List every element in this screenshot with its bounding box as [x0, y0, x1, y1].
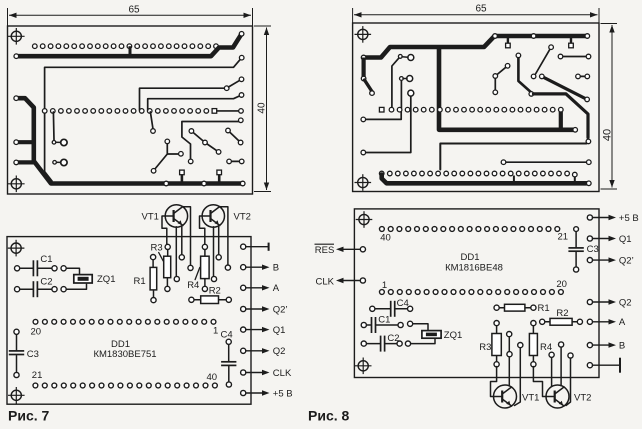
- thin diagonal trace C board 2: [536, 45, 554, 74]
- capacitor C4 board 4: [370, 298, 413, 317]
- capacitor C1 board 3: [15, 254, 58, 276]
- resistor R4 board 4: [529, 321, 552, 367]
- svg-text:C2: C2: [40, 276, 52, 287]
- pad row middle board 1: [42, 109, 243, 114]
- thin trace H board 1: [189, 129, 221, 155]
- trace pair E board 2: [558, 54, 591, 59]
- mounting hole top-left board 4: [356, 211, 373, 228]
- resistor R4 board 3: [187, 244, 209, 291]
- thin trace G board 1: [182, 118, 243, 164]
- svg-text:+5 В: +5 В: [273, 388, 293, 399]
- capacitor C4 board 3: [221, 329, 237, 387]
- pad row upper DD1 board 3: [33, 319, 216, 324]
- svg-text:КМ1816ВЕ48: КМ1816ВЕ48: [445, 262, 503, 273]
- PCB board 1 outline (65x40): [8, 26, 253, 194]
- svg-text:R2: R2: [556, 308, 568, 319]
- svg-text:40: 40: [602, 129, 614, 141]
- svg-text:Q2’: Q2’: [619, 255, 634, 266]
- wire VT2 lead2 board 4: [549, 352, 554, 386]
- mounting hole top-left board 1: [8, 28, 25, 45]
- svg-text:Q2: Q2: [273, 346, 286, 357]
- output pin Q1 board 3: [241, 325, 286, 336]
- svg-text:40: 40: [380, 232, 391, 243]
- thin trace D board 1: [140, 77, 244, 110]
- svg-text:20: 20: [31, 326, 42, 337]
- thin trace K board 1: [227, 159, 244, 164]
- svg-text:Q2’: Q2’: [273, 304, 288, 315]
- thick diagonal trace lower board 2: [516, 53, 588, 137]
- transistor VT2 board 4: [546, 385, 591, 408]
- svg-text:C2: C2: [387, 333, 399, 344]
- svg-text:Q1: Q1: [273, 325, 286, 336]
- output pin Q2’ board 4: [587, 255, 633, 266]
- wire VT1 base to R3: [162, 216, 167, 245]
- IC DD1 label board 3: [93, 339, 156, 360]
- svg-text:R1: R1: [538, 303, 550, 314]
- svg-text:B: B: [273, 263, 279, 274]
- crystal ZQ1 board 4: [405, 321, 462, 346]
- ground pin board 4: [587, 358, 620, 373]
- thin trace y162 board 2: [501, 160, 591, 165]
- mounting hole bottom-left board 1: [8, 176, 25, 193]
- svg-text:Q2: Q2: [619, 297, 632, 308]
- output pin A board 4: [587, 317, 626, 328]
- resistor R1 board 4: [494, 303, 550, 314]
- svg-text:C3: C3: [587, 244, 599, 255]
- svg-text:R4: R4: [540, 342, 552, 353]
- pad row upper DD1 board 4: [380, 227, 560, 232]
- svg-text:65: 65: [475, 4, 487, 15]
- pad row top board 1: [33, 44, 219, 49]
- wire VT2 emitter: [216, 227, 221, 260]
- capacitor C2 board 3: [15, 276, 58, 297]
- svg-text:R4: R4: [187, 280, 199, 291]
- IC DD1 label board 4: [445, 252, 503, 273]
- thin trace centre board 2: [493, 64, 510, 95]
- thin trace 1 left board 2: [392, 55, 414, 109]
- transistor VT1: [142, 205, 188, 227]
- pad row lower DD1 board 3: [33, 383, 217, 388]
- thick supply trace top board 2: [361, 34, 589, 60]
- mounting hole top-left board 3: [8, 240, 25, 257]
- pad row middle board 2: [379, 107, 563, 112]
- svg-text:21: 21: [32, 370, 43, 381]
- svg-text:A: A: [273, 283, 280, 294]
- thin trace 3 left board 2: [361, 90, 414, 155]
- output pin CLK board 3: [241, 368, 292, 379]
- svg-text:C4: C4: [221, 329, 233, 340]
- wire VT2 base to R4 board 4: [533, 367, 546, 397]
- ground pin board 3: [241, 243, 269, 251]
- svg-text:C3: C3: [27, 349, 39, 360]
- stub bottom row to ground board 2: [513, 176, 515, 182]
- svg-text:Рис. 8: Рис. 8: [308, 408, 350, 424]
- svg-text:R3: R3: [151, 243, 163, 254]
- svg-text:КМ1830ВЕ751: КМ1830ВЕ751: [93, 349, 156, 360]
- wire VT1 collector: [183, 207, 193, 271]
- svg-text:R1: R1: [134, 276, 146, 287]
- trace pair D board 2: [576, 74, 590, 79]
- svg-text:VT1: VT1: [142, 212, 159, 223]
- dimension 40 board 2: [601, 24, 618, 190]
- svg-text:CLK: CLK: [316, 276, 335, 287]
- wire VT2 lead3 board 4: [559, 342, 564, 386]
- wire VT1 lead3 board 4: [515, 343, 523, 406]
- svg-text:VT2: VT2: [574, 393, 591, 404]
- thin trace J board 1: [151, 139, 183, 173]
- resistor R1 board 3: [134, 255, 157, 303]
- resistor R3 board 4: [479, 321, 501, 367]
- resistor R3 board 3: [151, 243, 171, 292]
- svg-text:C1: C1: [40, 254, 52, 265]
- thin trace 4 left board 2: [361, 111, 401, 122]
- transistor VT2: [202, 205, 251, 227]
- wire VT1 lead2 board 4: [507, 332, 512, 386]
- wire VT1 emitter: [179, 227, 184, 260]
- svg-text:21: 21: [558, 232, 569, 243]
- svg-text:B: B: [619, 340, 625, 351]
- component board 3 outline: [7, 237, 251, 405]
- wire VT2 lead2: [211, 227, 216, 282]
- thick bottom trace board 2: [382, 175, 591, 186]
- output pin B board 3: [241, 263, 280, 274]
- wire VT1 base to R3 board 4: [491, 367, 497, 397]
- wire VT2 collector: [220, 207, 230, 270]
- dimension 65 board 1: [8, 5, 253, 26]
- output pin Q2’ board 3: [241, 304, 288, 315]
- input pin RES board 4: [315, 244, 366, 256]
- capacitor C3 board 3: [9, 329, 39, 377]
- svg-text:VT2: VT2: [234, 212, 251, 223]
- input pin CLK board 4: [316, 276, 366, 287]
- wire VT2 lead4 board 4: [566, 353, 573, 406]
- PCB board 2 outline (65x40): [353, 23, 599, 192]
- pad row lower DD1 board 4: [380, 290, 564, 295]
- output pin +5 В board 3: [241, 388, 293, 399]
- output pin +5 В board 4: [587, 213, 638, 224]
- via pads left-middle board 1: [52, 112, 67, 166]
- thick ground trace board 1: [14, 96, 245, 186]
- svg-text:ZQ1: ZQ1: [97, 274, 115, 285]
- svg-text:40: 40: [257, 102, 268, 114]
- svg-text:R3: R3: [479, 342, 491, 353]
- thin trace F board 1: [150, 112, 155, 133]
- thin trace 2 left board 2: [400, 76, 413, 109]
- output pin Q2 board 4: [587, 297, 631, 308]
- svg-text:1: 1: [213, 326, 218, 337]
- thick vertical trace board 2: [439, 48, 578, 132]
- capacitor C1 board 4: [361, 314, 403, 333]
- mounting hole bottom-left board 2: [355, 174, 372, 191]
- resistor R2 board 4: [540, 308, 583, 325]
- svg-text:RES: RES: [315, 245, 335, 256]
- capacitor C3 board 4: [568, 227, 598, 272]
- thin trace E board 1: [148, 93, 244, 110]
- svg-text:+5 В: +5 В: [619, 213, 639, 224]
- svg-text:65: 65: [128, 5, 140, 16]
- svg-text:ZQ1: ZQ1: [444, 330, 462, 341]
- svg-text:C4: C4: [397, 298, 409, 309]
- output pin Q1 board 4: [587, 234, 631, 245]
- thick diagonal trace upper board 2: [531, 74, 589, 102]
- thin trace pi board 2: [440, 139, 590, 169]
- component board 4 outline: [354, 209, 599, 378]
- svg-text:20: 20: [556, 279, 567, 290]
- mounting hole bottom-left board 4: [355, 358, 372, 375]
- svg-text:Q1: Q1: [619, 234, 632, 245]
- mounting hole bottom-left board 3: [8, 387, 25, 404]
- capacitor C2 board 4: [361, 333, 402, 352]
- thin trace I board 1: [226, 128, 243, 145]
- svg-text:40: 40: [207, 372, 218, 383]
- output pin Q2 board 3: [241, 346, 286, 357]
- wire VT1 lead2: [174, 227, 179, 282]
- crystal ZQ1 board 3: [61, 266, 115, 292]
- dimension 40 board 1: [254, 26, 271, 192]
- svg-text:C1: C1: [378, 314, 390, 325]
- svg-text:A: A: [619, 317, 626, 328]
- pad row bottom board 2: [379, 171, 577, 182]
- thick trace bus top board 1: [14, 32, 244, 59]
- transistor VT1 board 4: [494, 385, 540, 408]
- svg-text:VT1: VT1: [522, 393, 539, 404]
- svg-text:CLK: CLK: [273, 368, 292, 379]
- wire VT2 base to R4: [200, 216, 205, 245]
- output pin B board 4: [587, 340, 625, 351]
- thick stub left board 2: [361, 58, 374, 96]
- dimension 65 board 2: [353, 4, 599, 23]
- output pin A board 3: [241, 283, 280, 294]
- thin trace B board 1: [45, 55, 244, 181]
- mounting hole top-left board 2: [355, 26, 372, 43]
- resistor R2 board 3: [189, 286, 232, 304]
- svg-text:Рис. 7: Рис. 7: [8, 408, 50, 424]
- svg-text:R2: R2: [209, 286, 221, 297]
